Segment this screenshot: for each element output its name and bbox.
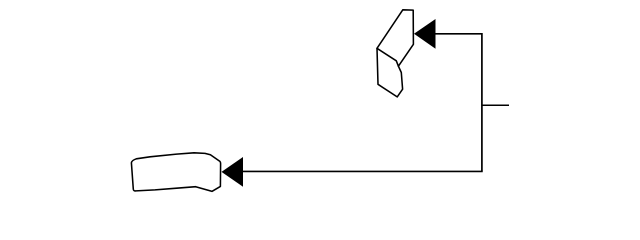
tick stub on vertical connector (482, 104, 509, 106)
leader wire: vertical connector (481, 33, 483, 171)
leader wire: horizontal from lower arrow (243, 170, 483, 172)
leader wire: horizontal from upper arrow (435, 33, 482, 35)
part: lower moulding outline (131, 153, 220, 192)
part: upper clip outline (377, 10, 413, 97)
arrowhead pointing at lower moulding (222, 157, 244, 187)
arrowhead pointing at upper clip (414, 19, 436, 49)
fold line of upper clip (377, 48, 398, 66)
